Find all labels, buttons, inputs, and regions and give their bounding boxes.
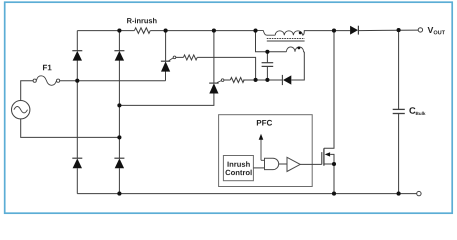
- bridge diode D2 column with vertical: [114, 31, 124, 194]
- junction node primary left on rail: [253, 29, 257, 33]
- label R-inrush: [127, 18, 156, 23]
- wire aux node vertical: [256, 31, 287, 52]
- Inrush Control box U2: [223, 156, 253, 181]
- terminal return: [417, 191, 421, 195]
- junction node CBulk bottom on return rail: [397, 192, 401, 196]
- wire buffer to gate: [300, 163, 322, 165]
- resistor R-inrush: [134, 28, 150, 34]
- label VOUT: [428, 27, 445, 34]
- junction node drain branch on rail: [332, 29, 336, 33]
- junction node aux winding left / C1 top: [265, 50, 269, 54]
- junction node SCR Q2 anode branch: [117, 103, 121, 107]
- wire SCR Q1 gate: [176, 57, 256, 80]
- wire PFC arrow tap to AND gate: [261, 159, 265, 161]
- resistor Rg2: [230, 78, 244, 83]
- terminal VOUT: [418, 28, 422, 32]
- junction node D2 top on rail: [117, 29, 121, 33]
- wire top rail left: [77, 30, 255, 32]
- label F1: [43, 65, 52, 71]
- label Inrush Control: [225, 161, 251, 175]
- bridge diode D1 column with vertical: [72, 31, 82, 194]
- wire AND to buffer: [279, 163, 287, 165]
- wire fuse to node A: [60, 80, 166, 82]
- junction node SCR Q1 cathode on rail: [164, 29, 168, 33]
- diode D6: [350, 26, 358, 35]
- fuse F1: [33, 76, 60, 85]
- SCR Q2: [119, 31, 224, 106]
- diode D5: [282, 52, 304, 85]
- transformer T1 core: [267, 39, 305, 42]
- label CBulk: [409, 107, 425, 115]
- label PFC: [257, 120, 272, 126]
- junction node MOSFET source: [332, 162, 336, 166]
- wire AC top to fuse: [21, 81, 33, 101]
- junction node A fuse-bridge: [75, 79, 79, 83]
- transformer T1 primary: [256, 31, 335, 36]
- resistor Rg1: [183, 55, 197, 60]
- wire top rail right: [334, 29, 418, 32]
- buffer U4: [287, 157, 300, 171]
- arrow to PFC: [259, 134, 264, 161]
- wire SCR Q2 gate: [224, 79, 282, 81]
- capacitor CBulk: [393, 30, 405, 194]
- junction node SCR Q2 cathode on rail: [212, 29, 216, 33]
- transformer T1 aux winding: [286, 47, 304, 52]
- junction node gate resistors meet: [254, 78, 258, 82]
- junction node D4 bottom on return rail: [117, 192, 121, 196]
- AND gate U3: [265, 158, 279, 169]
- SCR Q1: [161, 31, 176, 81]
- polarity dot primary: [299, 32, 302, 35]
- capacitor C1: [262, 52, 274, 80]
- polarity dot aux: [298, 47, 301, 50]
- junction node B AC-bridge: [117, 135, 121, 139]
- junction node source on return rail: [332, 192, 336, 196]
- bridge diode D3: [72, 158, 82, 168]
- bridge diode D4: [114, 158, 124, 168]
- bottom rail: [77, 193, 416, 195]
- AC source V1: [12, 101, 30, 119]
- junction node C1 bottom / D5 cathode: [265, 78, 269, 82]
- MOSFET Q3: [322, 31, 334, 194]
- PFC block box: [219, 115, 313, 187]
- wire AC bottom to bridge node B: [21, 119, 120, 137]
- junction node CBulk top on rail: [397, 28, 401, 32]
- wire Inrush Control to AND gate: [253, 167, 264, 169]
